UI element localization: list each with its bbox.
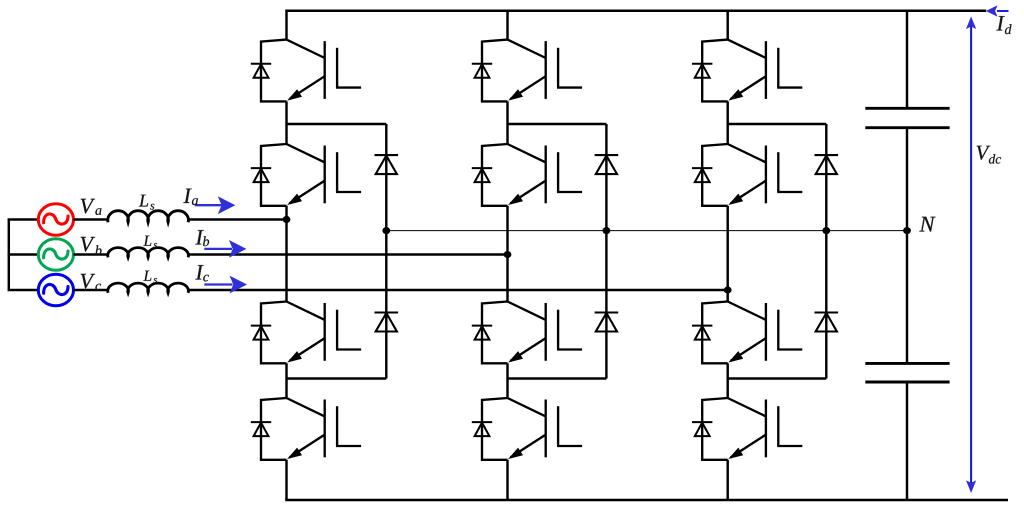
label Id: [996, 16, 1004, 30]
clamp diode Db6 (lower): [595, 313, 619, 332]
label Ia: [183, 189, 191, 203]
wire source Va to inductor La: [74, 218, 109, 220]
IGBT Qc1 (top, with antiparallel diode): [692, 40, 802, 102]
wire leg b: bus to Qb1 collector: [506, 11, 508, 40]
wire leg b: Qb4 emitter to bottom bus: [506, 460, 508, 500]
label Vb: [81, 237, 95, 252]
AC source Vb: [38, 239, 73, 271]
wire rail to source Vb: [8, 253, 39, 255]
wire clamp branch leg c (vertical): [825, 124, 827, 379]
wire leg a: Qa1 emitter to Qa2 collector: [285, 101, 287, 144]
junction phase a tap: [283, 216, 291, 223]
wire clamp branch leg b (vertical): [605, 124, 607, 379]
clamp diode Da6 (lower): [375, 313, 399, 332]
wire source Vc to inductor Lc: [74, 289, 109, 291]
wire DC-link vertical (C1 to C2): [906, 128, 908, 363]
arrow Ib: [204, 248, 232, 250]
wire top DC bus: [285, 9, 986, 12]
IGBT Qb1 (top, with antiparallel diode): [472, 40, 582, 102]
arrow Ic: [204, 283, 232, 285]
capacitor C1 (upper DC-link): [865, 108, 949, 127]
wire leg a: Qa2 emitter to Qa3 collector (phase tap): [285, 206, 287, 302]
wire bottom DC bus: [285, 499, 1008, 502]
label Ls phase c: [143, 271, 151, 281]
junction N at DC-link midpoint: [903, 227, 911, 234]
wire leg c: Qc3 emitter to Qc4 collector: [726, 363, 728, 398]
IGBT Qa1 (top, with antiparallel diode): [251, 40, 361, 102]
inductor Ls (phase c): [108, 283, 189, 293]
wire clamp top connector leg c: [728, 123, 827, 125]
wire leg b: Qb2 emitter to Qb3 collector (phase tap): [506, 206, 508, 302]
wire left rail (source neutral): [8, 220, 10, 291]
wire clamp bottom connector leg c: [728, 377, 827, 379]
wire leg a: Qa4 emitter to bottom bus: [285, 460, 287, 500]
label Ic: [195, 265, 203, 279]
label Vdc: [977, 146, 991, 160]
label Va: [81, 199, 95, 214]
wire leg b: Qb1 emitter to Qb2 collector: [506, 101, 508, 144]
wire neutral line N (thin): [386, 230, 907, 232]
label Ls phase b: [143, 236, 151, 246]
label Vc: [81, 274, 95, 289]
clamp diode Dc5 (upper): [815, 155, 839, 174]
wire clamp bottom connector leg a: [287, 377, 387, 379]
wire DC-link vertical (top bus to C1): [906, 11, 908, 108]
label N: [919, 217, 935, 232]
wire leg c: Qc4 emitter to bottom bus: [726, 460, 728, 500]
wire rail to source Vc: [8, 289, 39, 291]
wire leg c: Qc1 emitter to Qc2 collector: [726, 101, 728, 144]
AC source Vc: [38, 274, 73, 306]
IGBT Qc2 (with antiparallel diode): [692, 144, 802, 206]
AC source Va: [38, 204, 73, 236]
IGBT Qb2 (with antiparallel diode): [472, 144, 582, 206]
wire leg a: Qa3 emitter to Qa4 collector: [285, 363, 287, 398]
IGBT Qc4 (bottom, with antiparallel diode): [692, 398, 802, 460]
wire inductor Lb to leg b: [188, 253, 507, 256]
wire leg c: Qc2 emitter to Qc3 collector (phase tap): [726, 206, 728, 302]
wire leg c: bus to Qc1 collector: [726, 11, 728, 40]
wire DC-link vertical (C2 to bottom bus): [906, 383, 908, 500]
wire clamp top connector leg b: [508, 123, 607, 125]
clamp diode Dc6 (lower): [815, 313, 839, 332]
clamp diode Db5 (upper): [595, 155, 619, 174]
junction clamp midpoint leg a on N: [382, 227, 390, 234]
IGBT Qa4 (bottom, with antiparallel diode): [251, 398, 361, 460]
inductor Ls (phase b): [108, 248, 189, 258]
IGBT Qb3 (with antiparallel diode): [472, 302, 582, 364]
label Ls phase a: [139, 195, 148, 207]
junction clamp midpoint leg b on N: [603, 227, 611, 234]
wire leg b: Qb3 emitter to Qb4 collector: [506, 363, 508, 398]
IGBT Qb4 (bottom, with antiparallel diode): [472, 398, 582, 460]
wire clamp top connector leg a: [287, 123, 387, 125]
arrow Ia: [195, 204, 222, 206]
wire source Vb to inductor Lb: [74, 253, 109, 255]
inductor Ls (phase a): [108, 211, 189, 223]
arrow Id: [997, 10, 1009, 12]
IGBT Qa3 (with antiparallel diode): [251, 302, 361, 364]
wire inductor Lc to leg c: [188, 289, 728, 292]
label Ib: [195, 230, 203, 244]
wire clamp bottom connector leg b: [508, 377, 607, 379]
wire clamp branch leg a (vertical): [385, 124, 387, 379]
junction clamp midpoint leg c on N: [822, 227, 830, 234]
wire rail to source Va: [8, 218, 39, 220]
junction phase b tap: [504, 251, 512, 258]
capacitor C2 (lower DC-link): [865, 363, 949, 382]
IGBT Qa2 (with antiparallel diode): [251, 144, 361, 206]
wire inductor La to leg a: [188, 218, 286, 221]
wire leg a: bus to Qa1 collector: [285, 11, 287, 40]
IGBT Qc3 (with antiparallel diode): [692, 302, 802, 364]
junction phase c tap: [724, 286, 732, 293]
clamp diode Da5 (upper): [375, 155, 399, 174]
arrow Vdc (double headed): [970, 26, 972, 485]
